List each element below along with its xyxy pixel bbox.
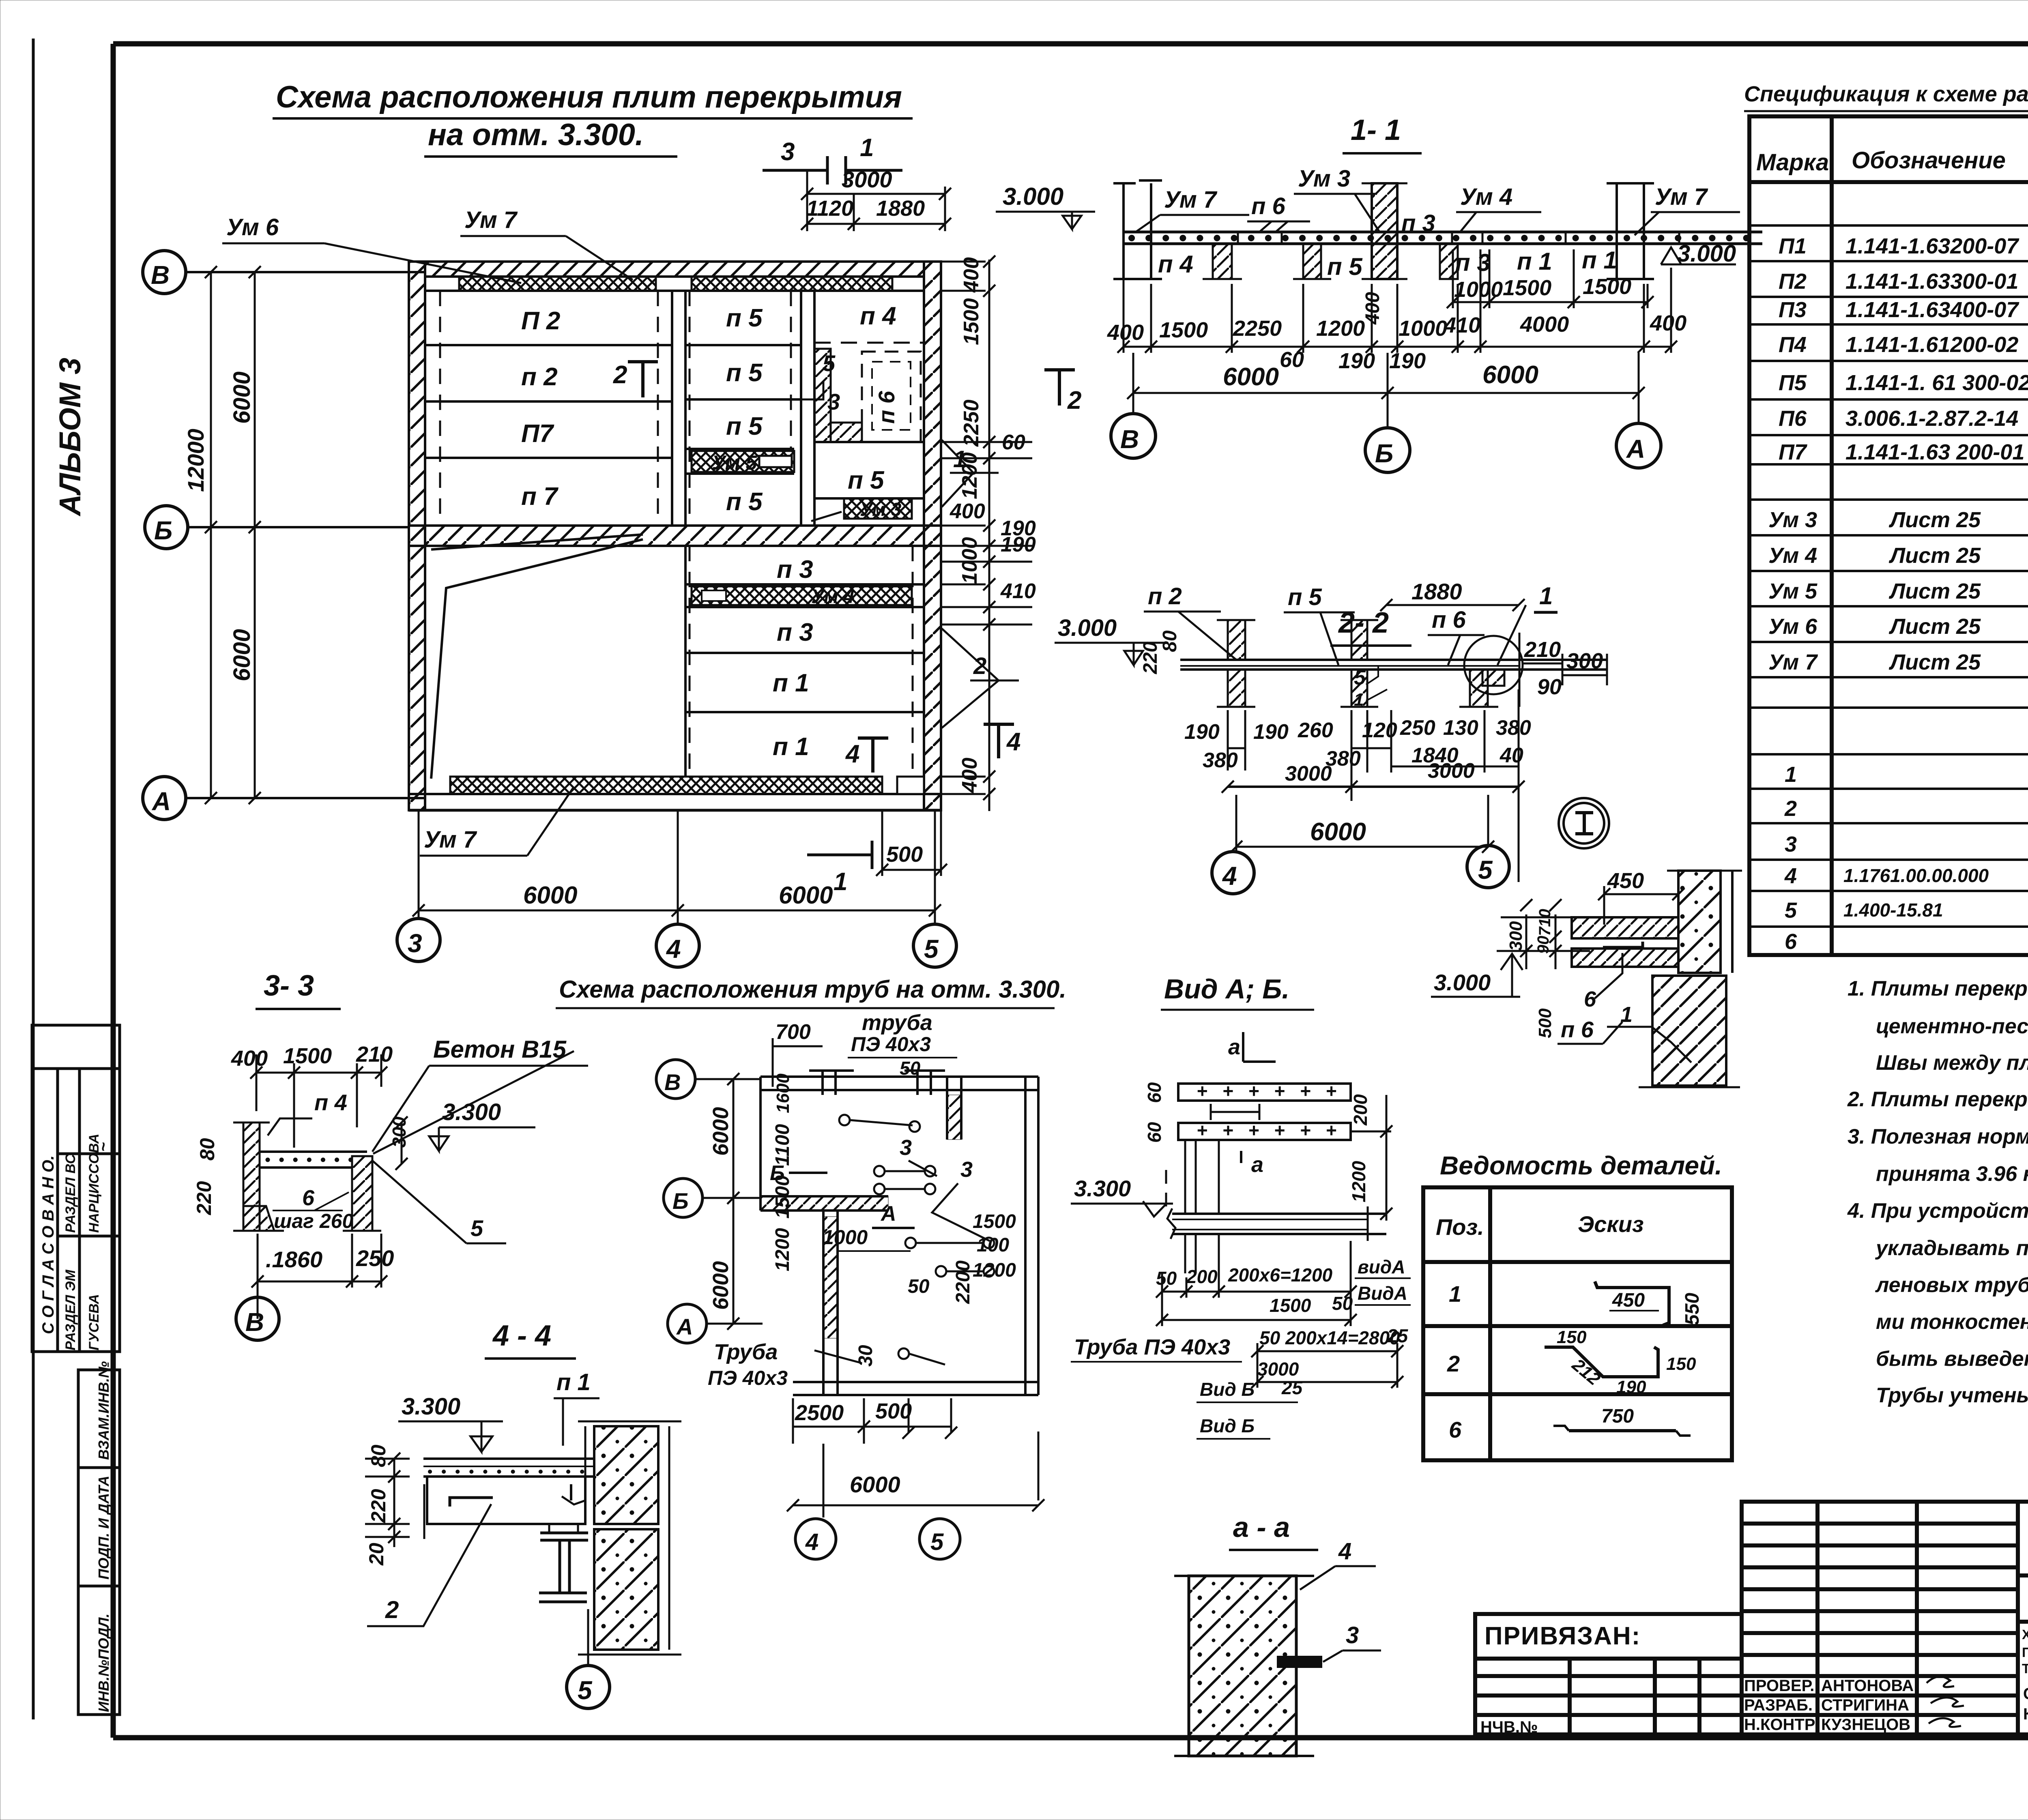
svg-text:1.141-1.63300-01: 1.141-1.63300-01 bbox=[1845, 269, 2018, 294]
svg-text:410: 410 bbox=[1444, 313, 1480, 337]
svg-text:6: 6 bbox=[1785, 929, 1797, 954]
svg-text:3.000: 3.000 bbox=[1434, 970, 1491, 995]
bar 1 with plus marks bbox=[1178, 1084, 1351, 1101]
pier right of B bbox=[1440, 244, 1458, 279]
svg-text:А: А bbox=[1626, 434, 1645, 464]
svg-text:4. При устройстве чистого пола: 4. При устройстве чистого пола на плиты … bbox=[1847, 1199, 2028, 1223]
left vertical dimension lines bbox=[210, 272, 212, 798]
vertical dim 6000/6000 (pipe plan) bbox=[733, 1079, 735, 1324]
wall pier left (section 2-2) bbox=[1228, 620, 1245, 660]
svg-text:3.006.1-2.87.2-14: 3.006.1-2.87.2-14 bbox=[1845, 406, 2018, 431]
svg-text:~: ~ bbox=[95, 1142, 112, 1152]
svg-text:1880: 1880 bbox=[1411, 579, 1462, 604]
svg-text:410: 410 bbox=[1000, 579, 1036, 603]
stamp signature rows bbox=[1744, 1677, 1914, 1734]
svg-text:Ведомость деталей.: Ведомость деталей. bbox=[1440, 1151, 1722, 1180]
svg-text:4 - 4: 4 - 4 bbox=[492, 1320, 551, 1352]
svg-text:80: 80 bbox=[1159, 630, 1181, 652]
svg-text:6000: 6000 bbox=[229, 371, 255, 424]
monolithic strip Um7 crosshatched (bottom) bbox=[450, 777, 882, 794]
svg-text:Вид А; Б.: Вид А; Б. bbox=[1164, 974, 1289, 1004]
svg-text:КРЫТИЯ И ТРУБ НА ОТМ. 3.300.: КРЫТИЯ И ТРУБ НА ОТМ. 3.300. bbox=[2023, 1705, 2028, 1723]
svg-text:2200: 2200 bbox=[952, 1260, 974, 1304]
slab labels middle bay bbox=[726, 304, 763, 516]
svg-text:3: 3 bbox=[900, 1135, 912, 1160]
sheet left trim line bbox=[32, 39, 35, 1719]
svg-text:190: 190 bbox=[1616, 1377, 1646, 1397]
svg-text:Схема расположения плит перекр: Схема расположения плит перекрытия bbox=[276, 80, 902, 114]
svg-text:3000: 3000 bbox=[1428, 759, 1475, 783]
svg-text:П 2: П 2 bbox=[521, 307, 560, 335]
svg-text:2250: 2250 bbox=[1233, 316, 1282, 341]
svg-text:+ + + + + +: + + + + + + bbox=[1197, 1120, 1341, 1141]
wall V (left) bbox=[1113, 180, 1162, 279]
inner vertical wall 1 bbox=[671, 291, 673, 526]
svg-text:1200: 1200 bbox=[1316, 316, 1365, 341]
svg-text:3- 3: 3- 3 bbox=[264, 970, 314, 1002]
svg-text:1- 1: 1- 1 bbox=[1351, 114, 1401, 146]
main dimension chain (section 1-1) bbox=[1124, 247, 1671, 353]
embedded plate a-a bbox=[1278, 1657, 1321, 1667]
svg-text:3.300: 3.300 bbox=[1074, 1176, 1131, 1201]
svg-text:12000: 12000 bbox=[183, 429, 208, 492]
svg-text:2500: 2500 bbox=[795, 1401, 844, 1425]
svg-text:3.000: 3.000 bbox=[1058, 615, 1117, 641]
svg-text:400: 400 bbox=[950, 500, 985, 523]
svg-text:Ум 3: Ум 3 bbox=[860, 499, 902, 520]
svg-text:6: 6 bbox=[302, 1186, 315, 1210]
svg-text:130: 130 bbox=[1443, 716, 1478, 740]
svg-text:1100: 1100 bbox=[772, 1124, 793, 1166]
svg-text:5: 5 bbox=[924, 934, 939, 964]
svg-text:2: 2 bbox=[385, 1596, 399, 1623]
svg-text:П2: П2 bbox=[1779, 269, 1807, 294]
svg-text:ПЭ 40х3: ПЭ 40х3 bbox=[708, 1367, 788, 1389]
svg-text:3000: 3000 bbox=[1285, 762, 1332, 786]
svg-text:1: 1 bbox=[1354, 690, 1364, 710]
svg-text:1: 1 bbox=[834, 868, 847, 896]
svg-text:2250: 2250 bbox=[960, 399, 983, 447]
svg-text:1500: 1500 bbox=[1159, 318, 1208, 342]
wall left bbox=[409, 262, 425, 810]
svg-text:Ум 7: Ум 7 bbox=[1164, 187, 1218, 213]
svg-text:6000: 6000 bbox=[1482, 361, 1538, 389]
svg-text:труба: труба bbox=[862, 1011, 932, 1035]
inner vertical wall 2 bbox=[800, 291, 802, 526]
svg-text:80: 80 bbox=[196, 1138, 219, 1161]
svg-text:Спецификация к схеме расположе: Спецификация к схеме расположения плит п… bbox=[1744, 82, 2028, 106]
svg-text:3000: 3000 bbox=[842, 167, 892, 192]
svg-text:Бетон В15: Бетон В15 bbox=[433, 1036, 567, 1063]
svg-text:4: 4 bbox=[1338, 1538, 1351, 1565]
sketch pos.1 bbox=[1595, 1281, 1669, 1325]
svg-text:1880: 1880 bbox=[876, 196, 925, 221]
svg-text:380: 380 bbox=[1496, 716, 1531, 740]
rotated dims 1200 1500 1100 1600 bbox=[772, 1073, 793, 1271]
svg-text:210: 210 bbox=[356, 1042, 393, 1067]
wall pier right + monolith (section 2-2) bbox=[1470, 670, 1488, 707]
svg-text:П3: П3 bbox=[1779, 298, 1807, 322]
svg-text:1.141-1.63200-07: 1.141-1.63200-07 bbox=[1845, 234, 2019, 258]
wall pier middle (section 2-2) bbox=[1351, 620, 1367, 660]
svg-text:30: 30 bbox=[855, 1345, 877, 1367]
wall top band hatched bbox=[425, 262, 924, 277]
svg-text:РАЗДЕЛ ВС: РАЗДЕЛ ВС bbox=[63, 1154, 78, 1233]
svg-text:40: 40 bbox=[1500, 744, 1523, 767]
svg-text:190: 190 bbox=[1184, 720, 1220, 744]
slab (section 3-3) bbox=[260, 1150, 367, 1153]
spec table header text bbox=[1756, 127, 2028, 176]
svg-text:п 5: п 5 bbox=[726, 412, 763, 440]
svg-text:210: 210 bbox=[1524, 637, 1561, 662]
svg-text:п 4: п 4 bbox=[314, 1090, 347, 1115]
pipe outlets (circles with leaders) bbox=[839, 1115, 994, 1365]
svg-text:80: 80 bbox=[367, 1444, 390, 1467]
svg-text:250: 250 bbox=[1400, 716, 1435, 740]
I-beam (section 4-4) bbox=[539, 1533, 588, 1602]
svg-text:60: 60 bbox=[1002, 431, 1025, 454]
svg-text:Ум 7: Ум 7 bbox=[424, 826, 477, 853]
privyazan box bbox=[1475, 1614, 1742, 1734]
slab end block (section 4-4) bbox=[427, 1477, 585, 1524]
svg-text:А: А bbox=[880, 1202, 896, 1225]
small hatched piers near P6 bbox=[814, 349, 831, 442]
svg-text:1200: 1200 bbox=[973, 1260, 1016, 1281]
svg-text:п 3: п 3 bbox=[1401, 210, 1435, 236]
right small dims (pipe plan) bbox=[855, 1211, 1016, 1367]
svg-text:120: 120 bbox=[1362, 719, 1397, 742]
svg-text:3.000: 3.000 bbox=[1003, 183, 1063, 210]
svg-text:190: 190 bbox=[1253, 720, 1289, 744]
svg-text:Ум 4: Ум 4 bbox=[811, 586, 855, 607]
svg-text:Лист 25: Лист 25 bbox=[1888, 543, 1981, 568]
svg-text:А: А bbox=[676, 1314, 693, 1339]
svg-text:60: 60 bbox=[1144, 1122, 1165, 1143]
svg-text:450: 450 bbox=[1607, 869, 1644, 893]
svg-text:450: 450 bbox=[1612, 1290, 1645, 1311]
svg-text:п 5: п 5 bbox=[726, 359, 763, 387]
svg-text:190: 190 bbox=[1389, 349, 1426, 373]
svg-text:400: 400 bbox=[1362, 292, 1384, 325]
svg-text:2: 2 bbox=[1447, 1351, 1460, 1376]
svg-text:1200: 1200 bbox=[772, 1228, 793, 1271]
lower wall block (detail) bbox=[1652, 976, 1726, 1086]
svg-text:Обозначение: Обозначение bbox=[1852, 147, 2006, 174]
svg-text:АЛЬБОМ 3: АЛЬБОМ 3 bbox=[53, 358, 87, 517]
svg-text:п 2: п 2 bbox=[521, 363, 558, 391]
monolithic strip Um4 bbox=[692, 586, 912, 605]
svg-text:1: 1 bbox=[1785, 762, 1797, 787]
svg-text:4: 4 bbox=[845, 740, 859, 768]
svg-text:Н.КОНТР: Н.КОНТР bbox=[1744, 1716, 1815, 1734]
P6 monolithic box (dashed) bbox=[862, 352, 921, 442]
svg-text:п 6: п 6 bbox=[1561, 1017, 1594, 1042]
svg-text:4: 4 bbox=[1006, 728, 1020, 756]
svg-text:ТЕЛЬНОСТЬЮ 12,5 КГ. ХЛОРА В ЧА: ТЕЛЬНОСТЬЮ 12,5 КГ. ХЛОРА В ЧАС. bbox=[2022, 1661, 2028, 1676]
svg-text:60: 60 bbox=[1144, 1082, 1165, 1103]
svg-text:220: 220 bbox=[367, 1489, 390, 1523]
svg-text:п 1: п 1 bbox=[556, 1369, 591, 1395]
svg-text:700: 700 bbox=[776, 1020, 811, 1044]
svg-text:1600: 1600 bbox=[773, 1073, 793, 1113]
svg-text:п 5: п 5 bbox=[726, 488, 763, 516]
svg-text:1: 1 bbox=[1449, 1281, 1461, 1307]
slab labels under band bbox=[1158, 247, 1617, 280]
slab joints middle bay bbox=[685, 345, 801, 474]
svg-text:3: 3 bbox=[1346, 1622, 1359, 1648]
left margin approval stamp (rotated) bbox=[32, 1025, 120, 1352]
svg-text:п 4: п 4 bbox=[1158, 251, 1193, 278]
svg-text:710: 710 bbox=[1536, 909, 1554, 936]
sketch pos.6 bbox=[1569, 1429, 1676, 1432]
svg-text:380: 380 bbox=[1203, 749, 1238, 772]
svg-text:6000: 6000 bbox=[1310, 818, 1366, 846]
svg-text:5: 5 bbox=[470, 1215, 483, 1241]
svg-text:5: 5 bbox=[578, 1676, 593, 1705]
svg-text:КУЗНЕЦОВ: КУЗНЕЦОВ bbox=[1821, 1716, 1910, 1734]
svg-text:6: 6 bbox=[1449, 1417, 1462, 1442]
vertical dim 200 / 1200 (view) bbox=[1386, 1095, 1388, 1221]
svg-text:ПОДП. И ДАТА: ПОДП. И ДАТА bbox=[95, 1476, 112, 1580]
svg-text:6000: 6000 bbox=[709, 1261, 733, 1310]
wall A (right) bbox=[1607, 183, 1654, 279]
svg-text:1000: 1000 bbox=[1454, 277, 1503, 302]
stamp object name bbox=[2022, 1627, 2028, 1676]
svg-text:п 4: п 4 bbox=[860, 302, 896, 330]
bar 2 with plus marks bbox=[1178, 1123, 1351, 1140]
right dimension chain of plan bbox=[988, 260, 990, 811]
svg-text:400: 400 bbox=[1107, 320, 1144, 345]
svg-text:.1860: .1860 bbox=[266, 1247, 322, 1272]
svg-text:П6: П6 bbox=[1779, 406, 1807, 431]
svg-text:550: 550 bbox=[1682, 1293, 1703, 1325]
axis circle V (section 3-3) bbox=[257, 1298, 259, 1319]
horizontal member (view) bbox=[1172, 1213, 1386, 1215]
svg-text:СТРИГИНА: СТРИГИНА bbox=[1821, 1696, 1909, 1714]
svg-text:5: 5 bbox=[930, 1529, 944, 1555]
svg-text:Б: Б bbox=[154, 516, 172, 545]
svg-text:ИНВ.№ПОДЛ.: ИНВ.№ПОДЛ. bbox=[95, 1614, 112, 1712]
svg-text:п 3: п 3 bbox=[1455, 249, 1491, 276]
svg-text:4: 4 bbox=[666, 934, 681, 964]
axis circles 4,5 (section 2-2) bbox=[1212, 852, 1254, 894]
svg-text:п 6: п 6 bbox=[1251, 193, 1286, 219]
svg-text:50: 50 bbox=[1156, 1268, 1177, 1289]
svg-text:Ум 3: Ум 3 bbox=[1298, 165, 1350, 192]
opening leader lines lower-left bay bbox=[431, 539, 643, 779]
sheet name bbox=[2023, 1685, 2028, 1723]
spec table grid bbox=[1749, 116, 2028, 955]
axis circles 4,5 (pipe plan) bbox=[823, 1444, 825, 1517]
svg-text:п 3: п 3 bbox=[777, 556, 813, 584]
svg-text:цементно-песчаному раствору то: цементно-песчаному раствору толщиной 20м… bbox=[1876, 1015, 2028, 1038]
svg-text:Швы между плитами тщательно за: Швы между плитами тщательно забить бетон… bbox=[1876, 1051, 2028, 1075]
svg-text:25: 25 bbox=[1281, 1377, 1303, 1398]
svg-text:Поз.: Поз. bbox=[1436, 1214, 1484, 1240]
anchor hook bbox=[450, 1498, 493, 1507]
svg-text:3.000: 3.000 bbox=[1677, 240, 1736, 267]
svg-text:ПРИВЯЗАН:: ПРИВЯЗАН: bbox=[1484, 1622, 1641, 1650]
pier 2 under slab bbox=[1303, 244, 1321, 279]
svg-text:4: 4 bbox=[805, 1529, 819, 1555]
svg-text:Ум 7: Ум 7 bbox=[1768, 650, 1818, 674]
svg-text:СХЕМА РАСПОЛОЖЕНИЯ ПЛИТ ПЕРЕ-: СХЕМА РАСПОЛОЖЕНИЯ ПЛИТ ПЕРЕ- bbox=[2023, 1685, 2028, 1703]
svg-text:п 1: п 1 bbox=[1582, 247, 1617, 274]
svg-text:190: 190 bbox=[1001, 533, 1036, 556]
svg-text:Ум 4: Ум 4 bbox=[1460, 184, 1512, 210]
sub dimensions 1000 1500 1500 bbox=[1447, 249, 1654, 308]
svg-text:а: а bbox=[1251, 1153, 1263, 1177]
svg-text:Б: Б bbox=[1375, 439, 1393, 468]
right wall (section 3-3) bbox=[352, 1156, 372, 1231]
svg-text:1500: 1500 bbox=[1270, 1295, 1311, 1316]
svg-text:200х6=1200: 200х6=1200 bbox=[1228, 1264, 1333, 1286]
sketch pos.2 bbox=[1545, 1347, 1658, 1377]
svg-text:В: В bbox=[245, 1307, 264, 1337]
svg-text:П4: П4 bbox=[1779, 333, 1807, 357]
pipe plan axis circles bbox=[656, 1060, 695, 1099]
wall B (middle, hatched both sides of slab) bbox=[1372, 183, 1397, 279]
svg-text:Ум 7: Ум 7 bbox=[464, 207, 518, 233]
axis circle V bbox=[143, 251, 186, 294]
svg-text:200: 200 bbox=[1186, 1266, 1218, 1287]
svg-text:ГУСЕВА: ГУСЕВА bbox=[86, 1294, 102, 1350]
svg-text:Ум 5: Ум 5 bbox=[712, 451, 757, 474]
detail circle I (section 2-2) bbox=[1464, 636, 1523, 694]
wall bottom bbox=[409, 793, 941, 795]
svg-text:п 3: п 3 bbox=[777, 618, 813, 646]
svg-text:1000: 1000 bbox=[958, 537, 982, 584]
svg-text:4: 4 bbox=[1222, 861, 1237, 891]
circle 5 (section 4-4) bbox=[587, 1609, 589, 1665]
svg-text:1120: 1120 bbox=[806, 196, 853, 221]
wall hatch marks (pipe plan) bbox=[947, 1095, 961, 1140]
svg-text:4: 4 bbox=[1784, 864, 1797, 888]
svg-text:6000: 6000 bbox=[523, 882, 577, 909]
svg-text:6000: 6000 bbox=[850, 1472, 900, 1497]
slab labels left bay bbox=[521, 307, 560, 511]
svg-text:1500: 1500 bbox=[1583, 275, 1631, 299]
svg-text:300: 300 bbox=[1566, 649, 1603, 673]
view dim lines bbox=[1156, 1241, 1403, 1388]
svg-text:Лист 25: Лист 25 bbox=[1888, 579, 1981, 603]
svg-text:ми тонкостенных стальных труб,: ми тонкостенных стальных труб, которые д… bbox=[1876, 1310, 2028, 1334]
plan inner top line bbox=[425, 290, 924, 292]
svg-text:500: 500 bbox=[875, 1399, 912, 1423]
svg-text:РАЗРАБ.: РАЗРАБ. bbox=[1744, 1696, 1813, 1714]
svg-text:6000: 6000 bbox=[779, 882, 833, 909]
svg-text:6000: 6000 bbox=[229, 629, 255, 681]
svg-text:ПИТЬЕВЫХ И СТОЧНЫХ ВОД ПРОИЗВО: ПИТЬЕВЫХ И СТОЧНЫХ ВОД ПРОИЗВОДИ- bbox=[2022, 1645, 2028, 1660]
svg-text:Схема расположения труб на отм: Схема расположения труб на отм. 3.300. bbox=[559, 976, 1066, 1003]
svg-text:А: А bbox=[151, 787, 171, 816]
pier under slab bbox=[1213, 244, 1232, 279]
svg-text:п 6: п 6 bbox=[874, 391, 899, 424]
svg-text:90: 90 bbox=[1537, 675, 1562, 699]
svg-text:3: 3 bbox=[960, 1157, 973, 1182]
wall right bbox=[924, 262, 941, 810]
svg-text:п 5: п 5 bbox=[1288, 584, 1322, 610]
inner small dim between bars bbox=[1211, 1111, 1259, 1113]
dims 400 1500 210 (section 3-3) bbox=[231, 1042, 393, 1071]
svg-text:В: В bbox=[1120, 425, 1139, 454]
details table texts bbox=[1436, 1211, 1644, 1442]
svg-text:1. Плиты перекрытия укладывать: 1. Плиты перекрытия укладывать по свежеу… bbox=[1848, 977, 2028, 1000]
svg-text:Лист 25: Лист 25 bbox=[1888, 614, 1981, 639]
svg-text:п 1: п 1 bbox=[773, 669, 809, 697]
svg-text:Вид Б: Вид Б bbox=[1200, 1415, 1255, 1436]
svg-text:5: 5 bbox=[1354, 666, 1366, 689]
svg-text:1.141-1.63 200-01: 1.141-1.63 200-01 bbox=[1845, 440, 2024, 464]
svg-text:1.141-1.63400-07: 1.141-1.63400-07 bbox=[1845, 298, 2019, 322]
svg-text:2: 2 bbox=[613, 361, 627, 389]
svg-text:3: 3 bbox=[408, 929, 422, 958]
section flag T4 (right of plan) bbox=[997, 724, 1000, 758]
svg-text:п 2: п 2 bbox=[1148, 583, 1182, 610]
svg-text:Эскиз: Эскиз bbox=[1578, 1211, 1644, 1237]
svg-text:1500: 1500 bbox=[1503, 276, 1551, 300]
svg-text:П7: П7 bbox=[521, 420, 554, 448]
detail designation circle T bbox=[1559, 798, 1609, 848]
svg-text:1200: 1200 bbox=[1348, 1161, 1369, 1202]
view dims row 1 bbox=[1156, 1256, 1409, 1436]
svg-text:леновых труб из подливок пола: леновых труб из подливок пола защитить о… bbox=[1875, 1273, 2028, 1297]
svg-text:Лист 25: Лист 25 bbox=[1888, 508, 1981, 532]
svg-text:принята 3.96 кпа.: принята 3.96 кпа. bbox=[1876, 1162, 2028, 1186]
svg-text:6000: 6000 bbox=[709, 1107, 733, 1156]
svg-text:АНТОНОВА: АНТОНОВА bbox=[1821, 1677, 1914, 1695]
slab band with dots bbox=[1124, 231, 1762, 234]
svg-text:НЧВ.№: НЧВ.№ bbox=[1480, 1718, 1538, 1736]
svg-text:3.300: 3.300 bbox=[402, 1393, 460, 1420]
svg-text:500: 500 bbox=[1535, 1008, 1555, 1038]
svg-text:а - а: а - а bbox=[1233, 1511, 1290, 1543]
svg-text:2. Плиты перекрытия связать м: 2. Плиты перекрытия связать между собой … bbox=[1847, 1088, 2028, 1111]
svg-text:190: 190 bbox=[1338, 349, 1375, 373]
section flag 4 (in plan) bbox=[871, 738, 874, 773]
svg-text:100: 100 bbox=[977, 1234, 1009, 1256]
axis circle B bbox=[145, 506, 188, 549]
svg-text:5: 5 bbox=[823, 350, 836, 376]
svg-text:ХЛОРАТОРНАЯ ДЛЯ ОБЕЗЗАРАЖИВАНИ: ХЛОРАТОРНАЯ ДЛЯ ОБЕЗЗАРАЖИВАНИЯ bbox=[2022, 1627, 2028, 1642]
svg-text:Ум 6: Ум 6 bbox=[1768, 614, 1817, 639]
svg-text:2: 2 bbox=[1784, 796, 1797, 821]
svg-text:Б: Б bbox=[770, 1161, 785, 1185]
svg-text:400: 400 bbox=[960, 257, 983, 293]
svg-text:1500: 1500 bbox=[283, 1044, 332, 1068]
monolithic strip Um5 bbox=[692, 451, 794, 472]
svg-text:укладывать полиэтиленовые труб: укладывать полиэтиленовые трубы. Выводы … bbox=[1875, 1236, 2028, 1260]
svg-text:5: 5 bbox=[1785, 898, 1797, 923]
svg-text:4000: 4000 bbox=[1520, 312, 1569, 337]
svg-text:500: 500 bbox=[886, 842, 923, 867]
svg-text:п 6: п 6 bbox=[1432, 607, 1466, 633]
signatures squiggles bbox=[1927, 1676, 1964, 1727]
svg-text:ВидА: ВидА bbox=[1358, 1283, 1407, 1304]
svg-text:1000: 1000 bbox=[1399, 316, 1447, 341]
section flag 2 (in plan) bbox=[641, 362, 644, 397]
svg-text:Б: Б bbox=[672, 1188, 689, 1214]
spec table body text bbox=[1768, 195, 2028, 954]
svg-text:п 1: п 1 bbox=[773, 733, 809, 761]
svg-text:3: 3 bbox=[1785, 832, 1797, 856]
svg-text:быть выведены выше пола на 200: быть выведены выше пола на 200 мм. bbox=[1876, 1347, 2028, 1371]
svg-text:200: 200 bbox=[1350, 1094, 1371, 1126]
svg-text:1500: 1500 bbox=[973, 1211, 1016, 1232]
lower dims section 2-2 bbox=[1228, 689, 1519, 882]
svg-text:П5: П5 bbox=[1779, 371, 1807, 395]
svg-text:1200: 1200 bbox=[958, 452, 982, 499]
